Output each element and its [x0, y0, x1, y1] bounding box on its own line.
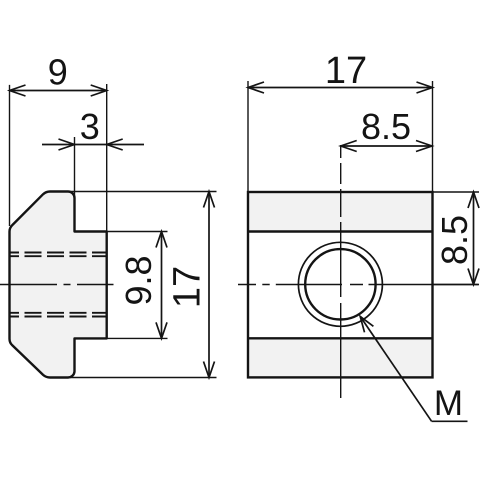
dimension 8.5 right extension line	[433, 191, 479, 193]
dimension 9.8 label	[118, 255, 159, 305]
dimension 17 left view label	[167, 266, 209, 308]
dimension 17 top line with arrows	[248, 82, 433, 93]
dimension 9.8 extension lines	[107, 232, 168, 339]
dimension 9.8 line with arrows	[156, 232, 167, 339]
label M	[434, 384, 463, 423]
svg-text:17: 17	[325, 50, 367, 92]
dimension 9 extension lines	[10, 84, 107, 232]
hidden thread line lower pair	[10, 313, 107, 317]
svg-text:17: 17	[167, 266, 209, 308]
dimension 3 label	[80, 106, 100, 147]
dimension 9 line with arrows	[10, 85, 107, 96]
svg-text:9: 9	[48, 52, 68, 93]
dimension 3 line with arrows	[42, 139, 144, 150]
dimension 3 extension line	[74, 137, 76, 200]
right view band line upper	[248, 230, 433, 232]
dimension 17 left view line with arrows	[204, 192, 215, 378]
right view horizontal centerline	[238, 284, 479, 286]
dimension 9 label	[48, 52, 68, 93]
dimension 17 top extension lines	[248, 81, 433, 192]
right view band line lower	[248, 337, 433, 339]
right view body rectangle	[248, 192, 433, 377]
svg-text:9.8: 9.8	[118, 255, 159, 305]
svg-text:8.5: 8.5	[361, 106, 411, 147]
left view body outline	[10, 192, 107, 378]
dimension 8.5 top label	[361, 106, 411, 147]
dimension 8.5 right line with arrows	[468, 192, 479, 285]
right view vertical centerline	[340, 145, 342, 399]
left view horizontal centerline	[0, 284, 114, 286]
leader line to thread	[360, 316, 467, 421]
svg-text:3: 3	[80, 106, 100, 147]
dimension 17 top label	[325, 50, 367, 92]
dimension 17 left view extension lines	[70, 192, 217, 378]
hidden thread line upper pair	[10, 253, 107, 257]
svg-text:8.5: 8.5	[434, 215, 475, 265]
thread outer circle	[298, 242, 382, 326]
svg-text:M: M	[434, 384, 463, 423]
dimension 8.5 right label	[434, 215, 475, 265]
tapped hole inner circle	[305, 249, 375, 319]
dimension 8.5 top line with arrows	[341, 141, 432, 152]
